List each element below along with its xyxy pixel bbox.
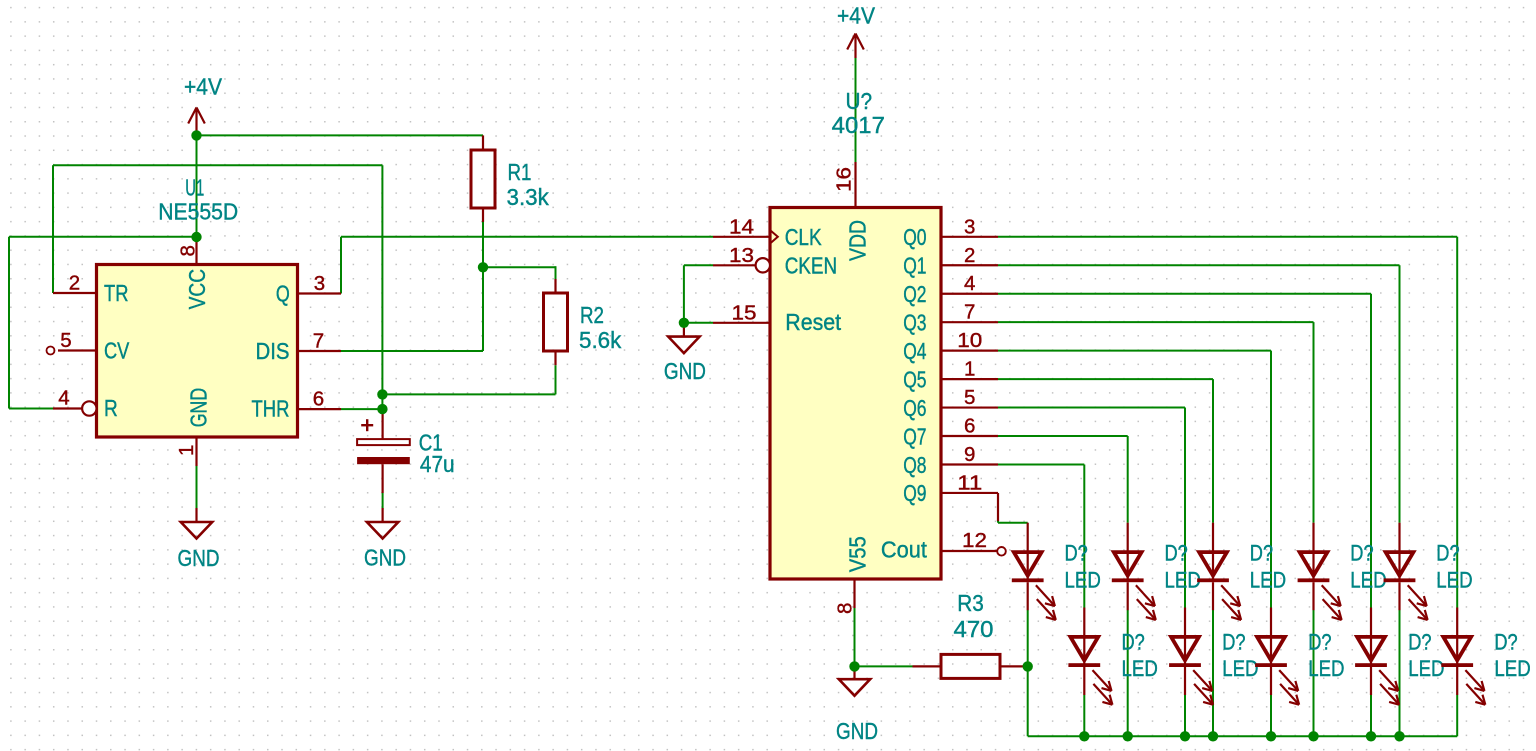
svg-text:1: 1 <box>175 445 198 456</box>
svg-text:DIS: DIS <box>256 338 290 364</box>
svg-text:LED: LED <box>1165 568 1201 593</box>
svg-text:3: 3 <box>964 215 975 238</box>
svg-text:3.3k: 3.3k <box>507 184 550 210</box>
svg-text:Q7: Q7 <box>903 423 926 449</box>
svg-text:Q5: Q5 <box>903 366 926 392</box>
svg-text:7: 7 <box>313 330 324 353</box>
svg-text:5: 5 <box>964 386 975 409</box>
svg-text:D?: D? <box>1165 541 1188 566</box>
svg-text:5.6k: 5.6k <box>579 327 622 353</box>
svg-text:LED: LED <box>1308 656 1344 681</box>
svg-text:V55: V55 <box>845 536 871 572</box>
svg-text:D?: D? <box>1408 630 1431 655</box>
svg-text:47u: 47u <box>420 451 455 477</box>
svg-text:D?: D? <box>1065 541 1088 566</box>
svg-text:U1: U1 <box>185 174 204 200</box>
svg-text:Cout: Cout <box>881 537 928 563</box>
svg-text:470: 470 <box>954 616 994 642</box>
svg-text:5: 5 <box>60 329 71 352</box>
svg-text:Q0: Q0 <box>903 224 926 250</box>
svg-text:GND: GND <box>186 388 212 427</box>
svg-text:+4V: +4V <box>837 3 876 29</box>
svg-text:D?: D? <box>1350 541 1373 566</box>
svg-text:LED: LED <box>1494 656 1530 681</box>
svg-text:16: 16 <box>832 167 855 192</box>
svg-text:3: 3 <box>314 272 325 295</box>
svg-text:R: R <box>104 395 118 421</box>
svg-text:8: 8 <box>834 603 857 614</box>
svg-text:D?: D? <box>1222 630 1245 655</box>
svg-text:8: 8 <box>177 245 200 256</box>
svg-text:13: 13 <box>729 244 754 267</box>
svg-text:LED: LED <box>1122 656 1158 681</box>
svg-text:LED: LED <box>1350 568 1386 593</box>
svg-text:11: 11 <box>957 471 982 494</box>
svg-text:R1: R1 <box>508 159 532 185</box>
svg-text:LED: LED <box>1250 568 1286 593</box>
svg-text:R3: R3 <box>957 590 984 616</box>
svg-text:GND: GND <box>364 545 406 571</box>
svg-text:GND: GND <box>836 718 878 744</box>
svg-text:+4V: +4V <box>184 74 223 100</box>
svg-text:9: 9 <box>964 443 975 466</box>
svg-text:4: 4 <box>964 272 975 295</box>
svg-text:THR: THR <box>252 396 290 422</box>
svg-text:Q3: Q3 <box>903 309 926 335</box>
svg-text:R2: R2 <box>580 302 604 328</box>
svg-text:D?: D? <box>1250 541 1273 566</box>
svg-text:10: 10 <box>957 329 982 352</box>
svg-text:GND: GND <box>178 545 220 571</box>
svg-text:NE555D: NE555D <box>158 199 238 225</box>
svg-text:D?: D? <box>1308 630 1331 655</box>
svg-text:1: 1 <box>964 358 975 381</box>
svg-text:2: 2 <box>69 272 80 295</box>
svg-text:TR: TR <box>104 280 129 306</box>
svg-text:LED: LED <box>1222 656 1258 681</box>
svg-text:LED: LED <box>1436 568 1472 593</box>
svg-text:2: 2 <box>964 244 975 267</box>
svg-text:D?: D? <box>1494 630 1517 655</box>
svg-text:Q1: Q1 <box>903 253 926 279</box>
svg-text:GND: GND <box>664 358 706 384</box>
svg-text:LED: LED <box>1065 568 1101 593</box>
svg-text:CKEN: CKEN <box>785 252 837 278</box>
svg-text:15: 15 <box>732 301 757 324</box>
svg-text:Q: Q <box>276 281 290 307</box>
svg-text:D?: D? <box>1436 541 1459 566</box>
svg-text:Q6: Q6 <box>903 395 926 421</box>
svg-text:VDD: VDD <box>845 220 871 261</box>
svg-text:VCC: VCC <box>184 269 210 310</box>
svg-text:CLK: CLK <box>785 224 823 250</box>
svg-text:4017: 4017 <box>832 112 885 138</box>
svg-text:U?: U? <box>846 88 873 114</box>
svg-text:4: 4 <box>58 387 69 410</box>
svg-text:Q9: Q9 <box>903 480 926 506</box>
svg-text:12: 12 <box>962 529 987 552</box>
svg-text:Q8: Q8 <box>903 452 926 478</box>
svg-text:CV: CV <box>104 338 130 364</box>
svg-text:D?: D? <box>1122 630 1145 655</box>
svg-text:6: 6 <box>313 388 324 411</box>
svg-text:6: 6 <box>964 415 975 438</box>
svg-text:Q4: Q4 <box>903 338 926 364</box>
svg-text:7: 7 <box>964 301 975 324</box>
svg-text:LED: LED <box>1408 656 1444 681</box>
svg-text:14: 14 <box>729 215 754 238</box>
svg-text:Q2: Q2 <box>903 281 926 307</box>
svg-text:Reset: Reset <box>785 309 841 335</box>
